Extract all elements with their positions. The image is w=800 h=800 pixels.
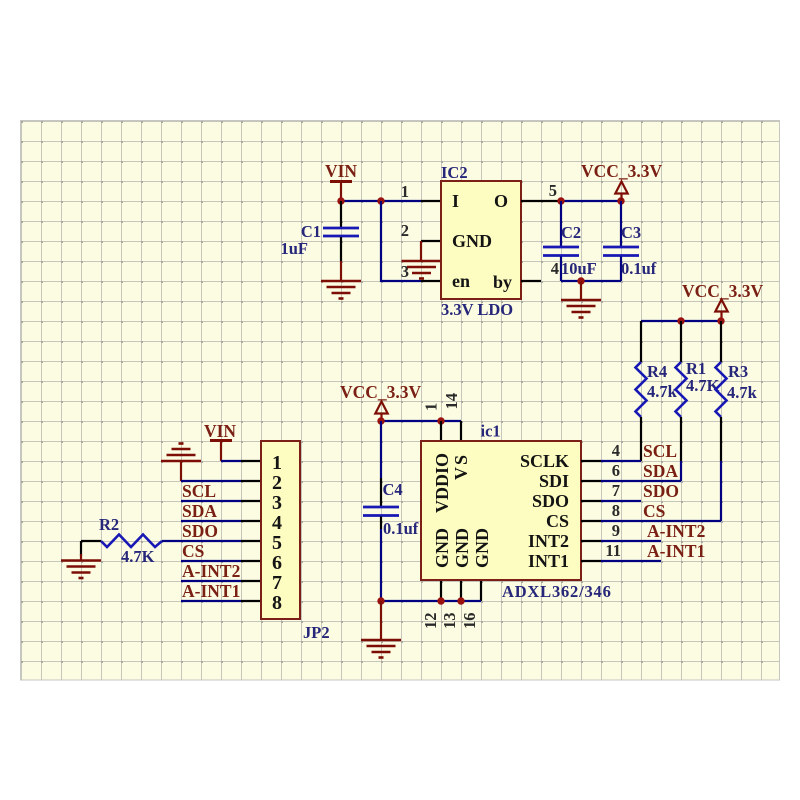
svg-text:GND: GND xyxy=(452,528,472,568)
pin 4 of IC2 (by) xyxy=(521,280,541,282)
svg-text:INT1: INT1 xyxy=(528,551,569,571)
svg-text:13: 13 xyxy=(440,613,459,630)
ground at R2 xyxy=(61,541,101,578)
wire INT1 xyxy=(601,560,661,562)
svg-text:3.3V LDO: 3.3V LDO xyxy=(441,300,513,319)
wire INT2 xyxy=(601,540,661,542)
svg-text:A-INT1: A-INT1 xyxy=(647,541,705,561)
capacitor C4 xyxy=(363,421,419,601)
ground under ic1 xyxy=(361,601,401,658)
junction node VIN/C1 xyxy=(337,197,344,204)
pin 1 of JP2 xyxy=(241,460,261,462)
svg-text:VDDIO: VDDIO xyxy=(432,453,452,513)
capacitor C3 xyxy=(603,201,657,281)
pin 7 of ic1 (SDO) xyxy=(581,500,601,502)
pin 3 of IC2 xyxy=(421,280,441,282)
pin 4 of ic1 (SCLK) xyxy=(581,460,601,462)
svg-text:8: 8 xyxy=(272,592,282,614)
wire VCC to VDDIO/VS xyxy=(381,420,461,422)
wire JP2 pin2 xyxy=(181,480,241,482)
pin 8 of ic1 (CS) xyxy=(581,520,601,522)
svg-text:SDO: SDO xyxy=(532,491,569,511)
junction node R1 top xyxy=(677,317,684,324)
svg-text:3: 3 xyxy=(272,492,282,514)
pin 14 of ic1 (VS) xyxy=(460,421,462,441)
resistor R4 xyxy=(636,321,678,461)
svg-text:SDA: SDA xyxy=(643,461,678,481)
svg-text:CS: CS xyxy=(546,511,569,531)
ground under C1 xyxy=(321,261,361,299)
pin 2 of IC2 (GND) xyxy=(421,240,441,242)
svg-text:SDO: SDO xyxy=(182,521,218,541)
svg-text:VS: VS xyxy=(451,453,471,480)
svg-text:GND: GND xyxy=(432,528,452,568)
svg-text:A-INT1: A-INT1 xyxy=(182,581,240,601)
svg-text:R3: R3 xyxy=(728,362,748,381)
svg-text:3: 3 xyxy=(401,262,409,281)
accelerometer ic1 body xyxy=(421,422,612,602)
svg-text:VCC_3.3V: VCC_3.3V xyxy=(340,382,422,402)
pin 6 of JP2 xyxy=(241,560,261,562)
wire JP2 pin6 (CS) xyxy=(181,560,241,562)
pin 1 of IC2 xyxy=(421,200,441,202)
junction node C2 top xyxy=(557,197,564,204)
junction node cap gnd xyxy=(577,277,584,284)
svg-text:11: 11 xyxy=(605,541,621,560)
svg-text:9: 9 xyxy=(612,521,620,540)
svg-text:4.7k: 4.7k xyxy=(647,382,678,401)
svg-text:SDO: SDO xyxy=(643,481,679,501)
pin 6 of ic1 (SDI) xyxy=(581,480,601,482)
pin 2 of JP2 xyxy=(241,480,261,482)
svg-text:7: 7 xyxy=(272,572,282,594)
svg-text:7: 7 xyxy=(612,481,620,500)
svg-text:JP2: JP2 xyxy=(303,623,330,642)
svg-text:SCLK: SCLK xyxy=(520,451,569,471)
power port VIN (top) xyxy=(325,161,357,201)
power port VIN (JP2) xyxy=(204,421,236,461)
wire R3 bottom to CS row xyxy=(720,461,722,521)
junction node en-rail xyxy=(377,197,384,204)
wire ic1 ground bus xyxy=(381,600,481,602)
ground under C2/C3 xyxy=(561,281,601,318)
svg-text:6: 6 xyxy=(272,552,282,574)
svg-text:CS: CS xyxy=(643,501,665,521)
svg-text:C2: C2 xyxy=(561,223,581,242)
svg-text:CS: CS xyxy=(182,541,204,561)
svg-text:2: 2 xyxy=(272,472,282,494)
header JP2 body xyxy=(261,441,330,642)
svg-text:1: 1 xyxy=(401,182,409,201)
svg-text:10uF: 10uF xyxy=(561,259,597,278)
svg-text:C4: C4 xyxy=(383,480,403,499)
wire SDI to R1 xyxy=(601,480,681,482)
ground at IC2 pin2 xyxy=(402,241,442,279)
wire C2/C3 bottoms xyxy=(561,280,621,282)
svg-text:4.7k: 4.7k xyxy=(727,383,758,402)
svg-text:GND: GND xyxy=(452,231,492,251)
svg-text:ic1: ic1 xyxy=(481,422,501,441)
svg-text:I: I xyxy=(452,191,459,211)
capacitor C2 xyxy=(543,201,597,281)
svg-text:O: O xyxy=(494,191,508,211)
svg-text:4.7K: 4.7K xyxy=(121,547,155,566)
pin 4 of JP2 xyxy=(241,520,261,522)
wire R1 bottom to SDA row xyxy=(680,461,682,481)
junction node C3 top xyxy=(617,197,624,204)
svg-text:1uF: 1uF xyxy=(280,239,308,258)
svg-text:SDA: SDA xyxy=(182,501,217,521)
svg-text:4: 4 xyxy=(551,259,559,278)
wire JP2 pin4 (SDA) xyxy=(181,520,241,522)
svg-text:INT2: INT2 xyxy=(528,531,569,551)
junction node C4 top xyxy=(377,417,384,424)
svg-text:1: 1 xyxy=(422,403,441,411)
wire SDO xyxy=(601,500,641,502)
svg-text:SCL: SCL xyxy=(643,441,677,461)
pin 7 of JP2 xyxy=(241,580,261,582)
wire en net: junction down and right to pin3 xyxy=(381,201,421,281)
svg-text:R4: R4 xyxy=(647,362,667,381)
power port VCC_3.3V (ic1) xyxy=(340,382,422,421)
resistor R1 xyxy=(676,321,720,461)
pin 16 of ic1 (GND) xyxy=(480,581,482,601)
svg-text:VIN: VIN xyxy=(204,421,236,441)
pin 5 of JP2 xyxy=(241,540,261,542)
svg-text:by: by xyxy=(493,272,512,292)
wire SCLK to R4 xyxy=(601,460,641,462)
junction node C4 bottom xyxy=(377,597,384,604)
power port VCC_3.3V (right) xyxy=(682,281,764,321)
wire VCC rail xyxy=(641,320,721,322)
svg-text:8: 8 xyxy=(612,501,620,520)
junction node GND12 xyxy=(437,597,444,604)
svg-text:R2: R2 xyxy=(99,515,119,534)
wire JP2 pin3 (SCL) xyxy=(181,500,241,502)
pin 1 of ic1 (VDDIO) xyxy=(440,421,442,441)
schematic sheet background xyxy=(21,121,780,681)
resistor R2 xyxy=(81,515,241,566)
junction node GND13 xyxy=(457,597,464,604)
pin 13 of ic1 (GND) xyxy=(460,581,462,601)
pin 12 of ic1 (GND) xyxy=(440,581,442,601)
svg-text:5: 5 xyxy=(272,532,282,554)
pin 8 of JP2 xyxy=(241,600,261,602)
svg-text:A-INT2: A-INT2 xyxy=(647,521,705,541)
svg-text:5: 5 xyxy=(549,181,557,200)
capacitor C1 xyxy=(280,201,359,261)
svg-text:6: 6 xyxy=(612,461,620,480)
wire CS to R3 xyxy=(601,520,721,522)
wire JP2 pin7 (A-INT2) xyxy=(181,580,241,582)
pin 9 of ic1 (INT2) xyxy=(581,540,601,542)
pin 5 of IC2 xyxy=(521,200,561,202)
wire JP2 pin8 (A-INT1) xyxy=(181,600,241,602)
svg-text:4.7K: 4.7K xyxy=(686,376,720,395)
svg-text:A-INT2: A-INT2 xyxy=(182,561,240,581)
inverted ground at JP2 pin2 xyxy=(161,444,201,482)
junction node VDDIO xyxy=(437,417,444,424)
wire VIN rail to IC2 pin1 xyxy=(341,200,421,202)
wire JP2 pin1 xyxy=(221,460,241,462)
svg-text:ADXL362/346: ADXL362/346 xyxy=(502,582,612,601)
svg-text:en: en xyxy=(452,271,470,291)
svg-text:IC2: IC2 xyxy=(441,163,468,182)
resistor R3 xyxy=(716,321,758,461)
junction node R3 top xyxy=(717,317,724,324)
svg-text:VCC_3.3V: VCC_3.3V xyxy=(682,281,764,301)
svg-text:GND: GND xyxy=(472,528,492,568)
svg-text:0.1uf: 0.1uf xyxy=(383,519,419,538)
svg-text:1: 1 xyxy=(272,452,282,474)
svg-text:SCL: SCL xyxy=(182,481,216,501)
svg-text:0.1uf: 0.1uf xyxy=(621,259,657,278)
wire pin5 to VCC xyxy=(561,200,621,202)
power port VCC_3.3V (top) xyxy=(581,161,663,201)
svg-text:4: 4 xyxy=(612,441,620,460)
svg-text:SDI: SDI xyxy=(539,471,569,491)
pin 3 of JP2 xyxy=(241,500,261,502)
svg-text:16: 16 xyxy=(460,613,479,630)
svg-text:C3: C3 xyxy=(621,223,641,242)
svg-text:2: 2 xyxy=(401,221,409,240)
svg-text:4: 4 xyxy=(272,512,282,534)
svg-text:VCC_3.3V: VCC_3.3V xyxy=(581,161,663,181)
pin 11 of ic1 (INT1) xyxy=(581,560,601,562)
svg-text:14: 14 xyxy=(442,393,461,410)
svg-text:12: 12 xyxy=(421,613,440,630)
regulator IC2 body xyxy=(441,163,521,319)
svg-text:VIN: VIN xyxy=(325,161,357,181)
